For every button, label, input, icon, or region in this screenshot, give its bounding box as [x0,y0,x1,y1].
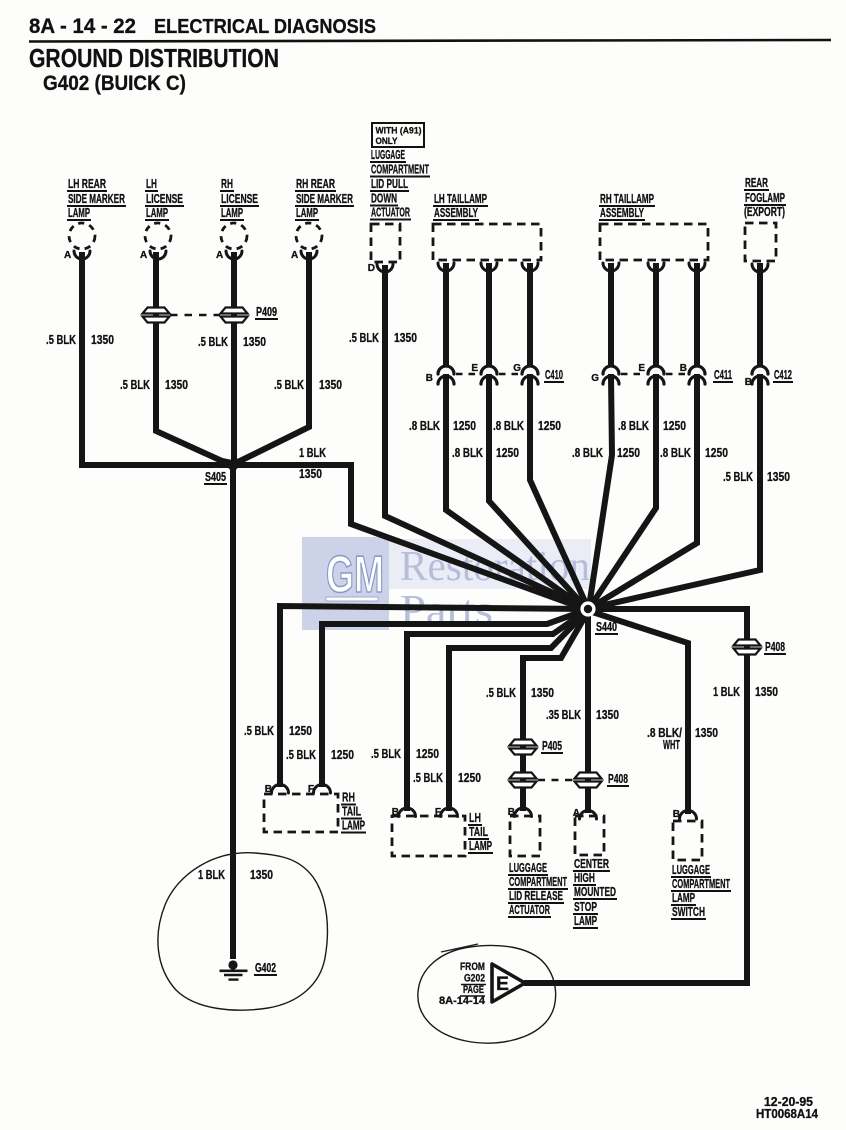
wire S440 to center stop lamp pin A [585,613,591,810]
svg-text:.5 BLK: .5 BLK [723,470,753,484]
splice S405 [228,460,239,471]
svg-text:D: D [368,263,375,274]
svg-text:B: B [680,363,687,374]
wire S440 to luggage lid release pin B [523,613,587,808]
hand-drawn tick above circle [441,944,478,952]
svg-text:1 BLK: 1 BLK [713,685,740,699]
svg-text:STOP: STOP [574,900,597,914]
svg-text:LID PULL: LID PULL [371,177,408,191]
svg-text:.5 BLK: .5 BLK [46,333,76,347]
component LUGGAGE COMPARTMENT LAMP SWITCH [671,809,731,919]
svg-text:WITH (A91): WITH (A91) [376,126,422,137]
connector P408 pair left half [510,773,537,779]
svg-text:B: B [745,377,752,388]
svg-text:1250: 1250 [705,446,728,460]
wire S440 to LH tail lamp pin F [449,612,586,808]
svg-text:.8 BLK: .8 BLK [618,419,649,433]
wire rear foglamp to S440 [757,266,763,365]
label P409 [255,305,278,319]
svg-text:LAMP: LAMP [574,914,597,928]
svg-text:.8 BLK: .8 BLK [452,446,483,460]
svg-text:.8 BLK: .8 BLK [409,419,440,433]
svg-text:ACTUATOR: ACTUATOR [509,903,550,917]
svg-text:LAMP: LAMP [296,206,318,220]
svg-text:LAMP: LAMP [469,839,492,853]
label .5 BLK 1250 on LH tail lamp B wire [371,747,439,761]
svg-text:S405: S405 [205,470,226,484]
svg-text:.5 BLK: .5 BLK [349,331,379,345]
svg-text:Parts: Parts [400,588,493,634]
svg-text:A: A [291,250,298,261]
component LH TAILLAMP ASSEMBLY [433,192,541,271]
svg-text:1250: 1250 [453,419,476,433]
label 1 BLK 1350 on FROM G202 wire [713,685,778,699]
label S440 [595,620,618,634]
svg-text:A: A [64,250,71,261]
svg-text:1350: 1350 [695,726,718,740]
svg-text:COMPARTMENT: COMPARTMENT [672,877,730,891]
hand-drawn circle around FROM G202 [418,945,556,1043]
svg-text:GM: GM [326,546,384,604]
label G402 [254,961,277,975]
svg-text:SIDE MARKER: SIDE MARKER [296,192,353,206]
splice S440 [580,601,595,616]
svg-text:.5 BLK: .5 BLK [371,747,401,761]
svg-text:COMPARTMENT: COMPARTMENT [371,163,429,177]
svg-text:1250: 1250 [331,748,354,762]
svg-text:ASSEMBLY: ASSEMBLY [600,206,644,220]
svg-text:.5 BLK: .5 BLK [286,748,316,762]
svg-text:ELECTRICAL DIAGNOSIS: ELECTRICAL DIAGNOSIS [154,16,376,38]
svg-text:LICENSE: LICENSE [221,192,258,206]
wire S440 to LH tail lamp pin B [407,611,586,808]
svg-text:.5 BLK: .5 BLK [198,335,228,349]
svg-text:1250: 1250 [289,724,312,738]
hand-drawn circle around G402 [158,853,328,1010]
label .5 BLK 1350 on rear foglamp wire [723,470,790,484]
svg-text:1350: 1350 [299,467,322,481]
wire S440 right to P408 and FROM G202 [527,609,747,983]
wire actuator to S440 [385,268,586,608]
svg-text:LAMP: LAMP [672,891,695,905]
wire RH rear side marker to S405 [234,255,309,463]
svg-text:LH: LH [469,811,481,825]
wire S405 to G402 ground [230,465,236,956]
svg-text:G402: G402 [255,961,276,975]
svg-text:1350: 1350 [243,335,266,349]
svg-text:C412: C412 [774,368,792,382]
wire S440 to RH tail lamp pin B [280,606,586,784]
svg-text:LAMP: LAMP [146,206,168,220]
svg-text:SIDE MARKER: SIDE MARKER [68,192,125,206]
svg-text:1350: 1350 [91,333,114,347]
svg-text:COMPARTMENT: COMPARTMENT [509,875,567,889]
component RH TAILLAMP ASSEMBLY [599,192,708,271]
svg-text:8A - 14 - 22: 8A - 14 - 22 [29,15,136,38]
wire S440 to luggage lamp switch pin B [589,611,688,811]
svg-text:E: E [471,363,478,374]
svg-text:RH TAILLAMP: RH TAILLAMP [600,192,654,206]
label .5 BLK 1350 on LH license wire [120,378,188,392]
svg-text:(EXPORT): (EXPORT) [744,205,785,219]
svg-text:1250: 1250 [538,419,561,433]
svg-text:.5 BLK: .5 BLK [274,378,304,392]
watermark GM Restoration Parts [302,537,591,634]
component LH TAIL LAMP [392,807,493,856]
svg-text:.8 BLK: .8 BLK [660,446,691,460]
wire LH license to S405 [156,255,232,463]
label .5 BLK 1350 on lid release wire [486,686,554,700]
svg-text:TAIL: TAIL [342,805,361,819]
svg-text:A: A [140,250,147,261]
svg-text:LH REAR: LH REAR [68,177,106,191]
svg-text:LUGGAGE: LUGGAGE [371,148,405,162]
svg-text:RH: RH [221,177,233,191]
wire LH taillamp pin E to S440 [486,266,492,365]
svg-text:C411: C411 [714,368,732,382]
svg-text:SWITCH: SWITCH [672,905,705,919]
svg-text:RH: RH [342,791,355,805]
svg-text:1250: 1250 [416,747,439,761]
dashed mate line P409 [170,314,220,317]
svg-text:LICENSE: LICENSE [146,192,183,206]
component CENTER HIGH MOUNTED STOP LAMP [573,808,617,928]
label .8 BLK 1250 on LH taillamp B wire [409,419,476,433]
svg-text:G: G [513,363,521,374]
svg-text:LAMP: LAMP [221,206,243,220]
ground G402 [220,960,248,979]
footer date and doc number [756,1095,818,1121]
component RH TAIL LAMP [264,784,366,833]
svg-text:REAR: REAR [745,176,768,190]
svg-text:1350: 1350 [531,686,554,700]
wire S440 to RH tail lamp pin F [322,610,586,784]
svg-text:ONLY: ONLY [376,136,399,147]
svg-text:.5 BLK: .5 BLK [486,686,516,700]
note WITH (A91) ONLY [372,123,424,147]
lamp RH REAR SIDE MARKER LAMP [291,177,354,261]
svg-text:1350: 1350 [755,685,778,699]
label .5 BLK 1250 on LH tail lamp F wire [413,771,481,785]
connector P409 left half [143,308,170,314]
svg-text:1350: 1350 [165,378,188,392]
svg-text:.8 BLK: .8 BLK [493,419,524,433]
dashed mate line P408 [538,779,573,782]
connector P409 right half [221,308,248,314]
label .35 BLK 1350 on stop lamp wire [546,708,619,722]
connector C412 [745,366,793,388]
lamp RH LICENSE LAMP [216,177,259,261]
svg-text:.35 BLK: .35 BLK [546,708,581,722]
svg-text:HT0068A14: HT0068A14 [756,1107,818,1121]
svg-text:P408: P408 [765,640,785,654]
svg-text:A: A [216,250,223,261]
svg-text:RH REAR: RH REAR [296,177,335,191]
wire S405 to S440 (1 BLK 1350) [233,465,585,609]
svg-text:B: B [673,809,680,820]
svg-text:DOWN: DOWN [371,192,397,206]
svg-text:FOGLAMP: FOGLAMP [745,191,785,205]
svg-text:1250: 1250 [458,771,481,785]
svg-text:S440: S440 [596,620,617,634]
svg-text:ACTUATOR: ACTUATOR [371,206,410,220]
svg-text:FROM: FROM [460,961,485,973]
label .8 BLK 1250 on LH taillamp E wire [452,446,519,460]
connector P408 right [734,640,761,646]
svg-text:ASSEMBLY: ASSEMBLY [434,206,478,220]
svg-text:MOUNTED: MOUNTED [574,885,616,899]
svg-text:LUGGAGE: LUGGAGE [509,861,547,875]
svg-text:1250: 1250 [617,446,640,460]
svg-text:G202: G202 [464,973,485,985]
svg-text:G402 (BUICK C): G402 (BUICK C) [43,72,186,95]
lamp LH REAR SIDE MARKER LAMP [64,177,126,261]
svg-text:LUGGAGE: LUGGAGE [672,863,710,877]
connector P408 pair right half [575,773,602,779]
svg-text:1350: 1350 [319,378,342,392]
wire RH taillamp pin G to S440 [608,266,614,365]
svg-text:.5 BLK: .5 BLK [120,378,150,392]
svg-text:.8 BLK: .8 BLK [572,446,603,460]
svg-text:1350: 1350 [767,470,790,484]
svg-text:LH: LH [146,177,157,191]
connector P405 [510,740,537,746]
svg-text:1350: 1350 [394,331,417,345]
label .5 BLK 1350 on LH rear side marker wire [46,333,114,347]
label .5 BLK 1350 on RH license wire [198,335,266,349]
svg-text:WHT: WHT [663,738,680,752]
component LUGGAGE COMPARTMENT LID RELEASE ACTUATOR [508,807,568,917]
svg-text:CENTER: CENTER [574,857,609,871]
svg-text:.5 BLK: .5 BLK [413,771,443,785]
lamp LH LICENSE LAMP [140,177,184,261]
svg-text:P408: P408 [608,772,628,786]
wire RH license to S405 [231,255,237,462]
svg-text:.5 BLK: .5 BLK [244,724,274,738]
label .8 BLK/WHT 1350 on luggage lamp switch wire [647,726,718,752]
svg-text:1250: 1250 [663,419,686,433]
svg-text:LH TAILLAMP: LH TAILLAMP [434,192,487,206]
svg-text:GROUND DISTRIBUTION: GROUND DISTRIBUTION [29,43,279,73]
svg-text:E: E [638,363,645,374]
svg-text:1350: 1350 [250,868,273,882]
label 1 BLK 1350 on S405-S440 wire [299,446,326,481]
connector C411 [591,363,733,384]
wire RH taillamp pin E to S440 [653,266,659,365]
svg-text:1 BLK: 1 BLK [299,446,326,460]
svg-text:G: G [591,373,599,384]
svg-text:P405: P405 [542,739,562,753]
label .5 BLK 1250 on RH tail lamp F wire [286,748,354,762]
wire LH taillamp pin B to S440 [443,266,449,365]
actuator LUGGAGE COMPARTMENT LID PULL DOWN ACTUATOR [368,148,430,274]
label .8 BLK 1250 on RH taillamp B wire [660,446,728,460]
label .5 BLK 1350 on RH rear side marker wire [274,378,342,392]
svg-text:B: B [426,373,433,384]
svg-text:LAMP: LAMP [342,819,365,833]
lamp REAR FOGLAMP (EXPORT) [744,176,786,272]
svg-text:1350: 1350 [596,708,619,722]
wire LH taillamp pin G to S440 [527,266,533,365]
label 1 BLK 1350 on ground wire [198,868,273,882]
page header [29,15,831,95]
svg-text:TAIL: TAIL [469,825,488,839]
svg-text:LAMP: LAMP [68,206,90,220]
label .8 BLK 1250 on RH taillamp E wire [618,419,686,433]
label .8 BLK 1250 on RH taillamp G wire [572,446,640,460]
label .5 BLK 1250 on RH tail lamp B wire [244,724,312,738]
svg-text:C410: C410 [545,368,563,382]
off-page connector E FROM G202 PAGE 8A-14-14 [439,961,525,1007]
wire RH taillamp pin B to S440 [694,266,700,365]
svg-text:8A-14-14: 8A-14-14 [439,995,486,1007]
label S405 [204,470,227,484]
label .8 BLK 1250 on LH taillamp G wire [493,419,561,433]
wire LH rear side marker to S405 [82,255,229,465]
svg-text:HIGH: HIGH [574,871,595,885]
svg-text:P409: P409 [256,305,277,319]
svg-text:1 BLK: 1 BLK [198,868,225,882]
svg-text:E: E [496,974,509,995]
svg-text:1250: 1250 [496,446,519,460]
connector C410 [426,363,564,384]
label .5 BLK 1350 on actuator wire [349,331,417,345]
svg-text:LID RELEASE: LID RELEASE [509,889,563,903]
